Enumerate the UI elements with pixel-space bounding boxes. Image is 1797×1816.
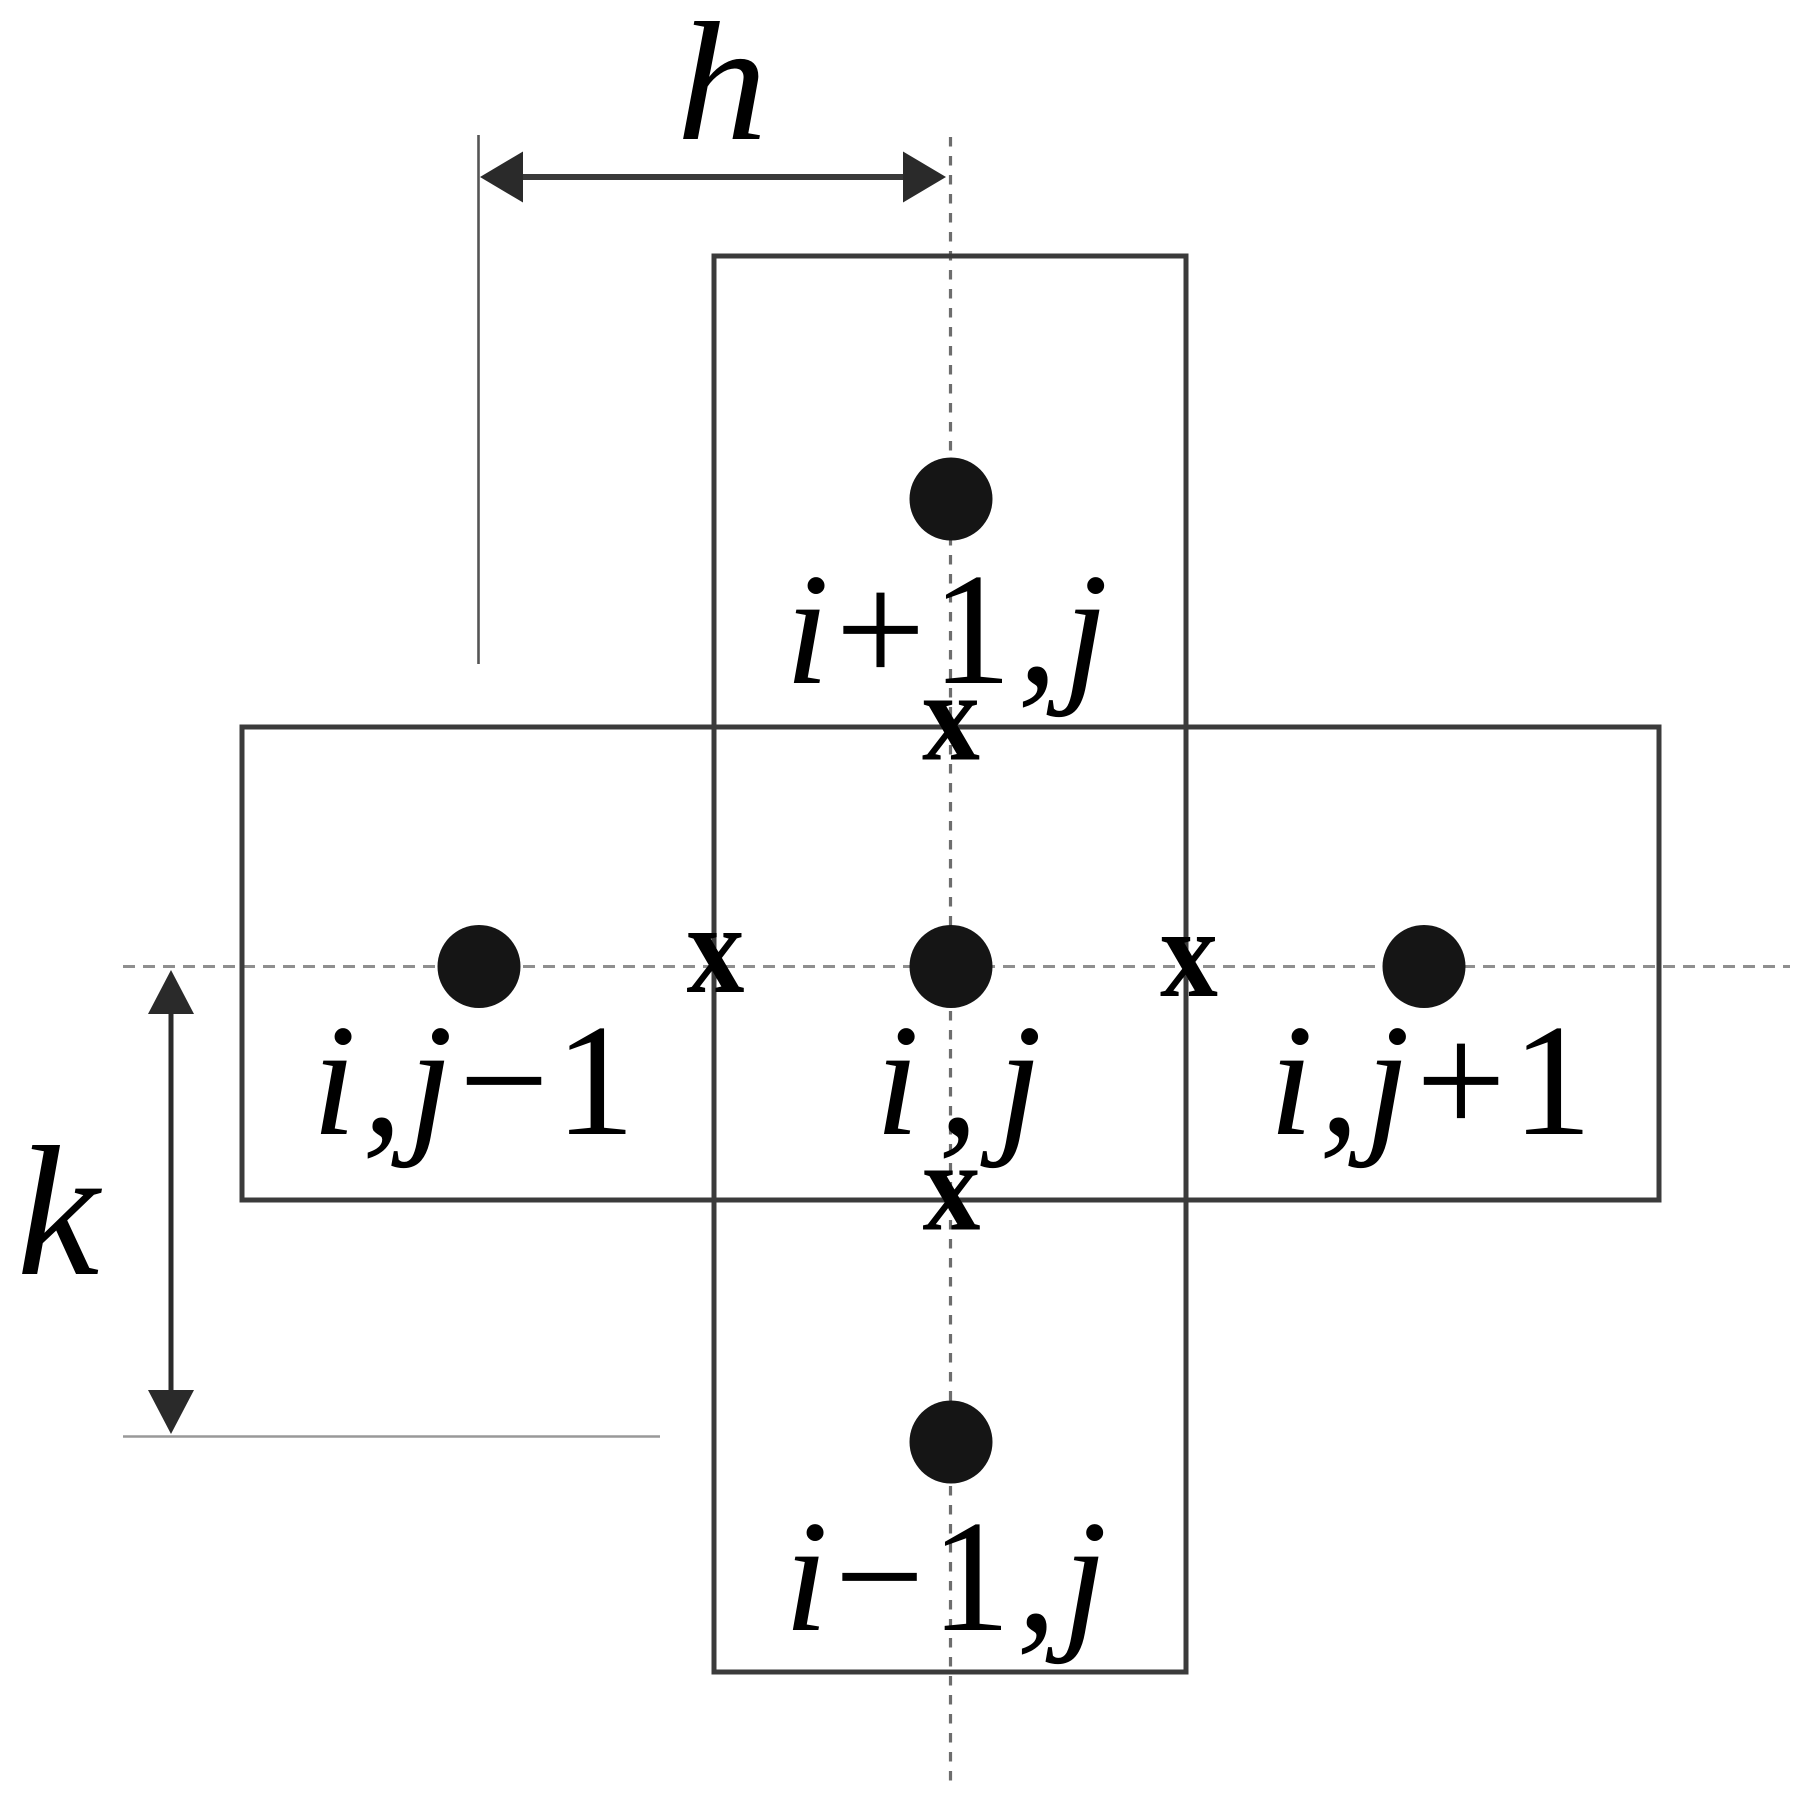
vertical cell rectangle (column j control volume) [714,256,1186,1672]
node i+1,j (dot) [910,458,993,541]
node i,j-1 (dot) [438,925,521,1008]
node i,j (dot) [910,925,993,1008]
horizontal cell rectangle (row i control volume) [242,727,1659,1200]
h dimension guide line (left extension) [477,135,480,664]
dashed vertical grid axis through node i,j [949,137,952,1788]
node i-1,j (dot) [910,1401,993,1484]
svg-text:x: x [1160,882,1218,1024]
k dimension arrow (double-headed) [148,970,194,1434]
node i,j+1 (dot) [1383,925,1466,1008]
svg-text:i,j−1: i,j−1 [312,991,641,1169]
h dimension arrow (double-headed) [480,152,946,203]
dashed horizontal grid axis through node i,j [123,965,1790,968]
svg-text:i−1,j: i−1,j [784,1487,1113,1665]
svg-text:k: k [17,1109,103,1315]
svg-text:i,j+1: i,j+1 [1269,991,1598,1169]
svg-text:x: x [922,646,980,788]
svg-text:h: h [677,0,768,177]
svg-text:x: x [687,878,745,1020]
svg-text:x: x [923,1116,981,1258]
k dimension guide line (bottom extension) [123,1435,660,1437]
